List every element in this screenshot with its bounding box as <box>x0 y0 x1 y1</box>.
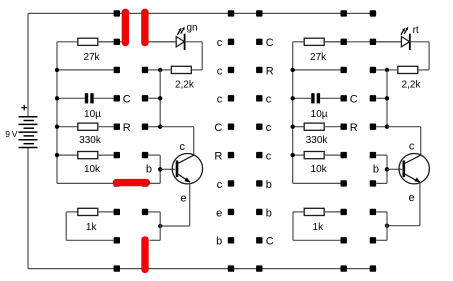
wire bottom ground rail <box>28 268 376 270</box>
label R2 value 330k <box>79 135 102 146</box>
wire right 1k elbow down <box>293 212 341 240</box>
resistor R10 2,2k <box>387 66 418 73</box>
LED D1 green <box>149 23 198 50</box>
junction right emitter node <box>385 224 389 228</box>
wire top supply rail <box>28 12 376 14</box>
wire right collector feed vertical <box>386 70 388 127</box>
svg-text:330k: 330k <box>306 135 329 146</box>
label Q1 c <box>179 141 185 153</box>
wire right bus vertical <box>292 42 294 184</box>
junction bus row4 <box>55 96 59 100</box>
svg-text:27k: 27k <box>83 52 100 63</box>
svg-text:C: C <box>266 37 274 49</box>
svg-text:10k: 10k <box>84 164 101 175</box>
wire base connector column <box>148 155 160 183</box>
junction base node <box>158 167 162 171</box>
wire right emitter down <box>387 182 420 225</box>
wire column A2 row3 link <box>148 69 160 71</box>
wire row3 bus to column A <box>57 69 114 71</box>
node column C breadboard pads <box>256 10 262 272</box>
svg-text:C: C <box>214 122 222 134</box>
wire base lead <box>160 168 175 170</box>
svg-text:2,2k: 2,2k <box>175 79 195 90</box>
wire 1k elbow down <box>66 212 113 240</box>
wire row3 bus to column D <box>293 69 341 71</box>
svg-text:gn: gn <box>187 23 198 34</box>
label R10 value 2,2k <box>402 79 422 90</box>
label R8 value 10k <box>311 164 328 175</box>
svg-text:C: C <box>350 94 358 106</box>
svg-text:b: b <box>266 179 272 191</box>
transistor Q1 <box>172 154 202 184</box>
svg-text:C: C <box>266 236 274 248</box>
node column A breadboard pads <box>114 10 120 272</box>
svg-text:c: c <box>266 94 272 106</box>
svg-text:9 V: 9 V <box>5 129 17 139</box>
junction bus row3 <box>55 68 59 72</box>
wire right emitter connector column <box>376 212 387 240</box>
node column E breadboard pads <box>370 10 376 272</box>
svg-text:330k: 330k <box>79 135 102 146</box>
svg-text:e: e <box>408 192 414 204</box>
wire LED2 to 2.2k elbow <box>410 42 429 70</box>
node label left R <box>123 122 131 134</box>
svg-text:R: R <box>350 122 358 134</box>
node column B breadboard pads <box>228 10 234 272</box>
junction right node row5 <box>385 125 389 129</box>
svg-text:c: c <box>217 94 223 106</box>
wire collector elbow <box>160 127 194 155</box>
junction right bus row4 <box>291 96 295 100</box>
svg-text:2,2k: 2,2k <box>402 79 422 90</box>
jumper J4 red vertical <box>141 236 148 273</box>
svg-text:c: c <box>266 151 272 163</box>
junction right base node <box>385 167 389 171</box>
label R9 value 1k <box>313 222 325 233</box>
svg-text:b: b <box>373 164 379 176</box>
label R4 value 1k <box>86 222 98 233</box>
junction right bus row3 <box>291 68 295 72</box>
junction bus row5 <box>55 125 59 129</box>
label Q2 c <box>409 140 415 152</box>
label R3 value 10k <box>84 164 101 175</box>
wire LED to 2.2k elbow <box>185 42 203 70</box>
wire right row7 bus elbow <box>293 182 341 184</box>
node labels column C <box>266 37 274 248</box>
resistor R3 10k <box>57 152 114 159</box>
resistor R7 330k <box>293 123 341 130</box>
svg-text:10k: 10k <box>311 164 328 175</box>
label R1 value 27k <box>83 52 100 63</box>
resistor R2 330k <box>57 123 114 130</box>
svg-text:R: R <box>214 151 222 163</box>
resistor R9 1k <box>293 208 341 215</box>
label C1 value 10µ <box>84 109 101 120</box>
junction right node row4 <box>385 96 389 100</box>
label Q2 e <box>408 192 414 204</box>
resistor R6 27k <box>293 38 341 45</box>
wire right base connector column <box>376 155 387 183</box>
wire row2 left to squares <box>98 41 176 43</box>
wire left bus vertical <box>56 42 58 184</box>
jumper J3 red horizontal <box>113 179 151 186</box>
svg-text:e: e <box>216 207 222 219</box>
label Q1 e <box>180 192 186 204</box>
svg-text:10µ: 10µ <box>311 109 328 120</box>
transistor Q2 <box>399 154 429 184</box>
svg-text:C: C <box>123 94 131 106</box>
junction bus row6 <box>55 153 59 157</box>
node column D breadboard pads <box>341 10 347 272</box>
svg-text:c: c <box>217 37 223 49</box>
node label left C <box>123 94 131 106</box>
junction right node row3 <box>385 68 389 72</box>
capacitor C2 10µ <box>293 93 341 103</box>
svg-text:c: c <box>179 141 185 153</box>
svg-text:+: + <box>21 103 27 115</box>
resistor R5 2,2k <box>160 66 191 73</box>
label R5 value 2,2k <box>175 79 195 90</box>
wire row2 right to LED <box>324 41 402 43</box>
LED D2 red <box>376 25 419 50</box>
node column A2 breadboard pads <box>142 10 148 272</box>
junction emitter node <box>158 224 162 228</box>
capacitor C1 10µ <box>57 93 114 103</box>
resistor R1 27k <box>57 38 114 45</box>
resistor R4 1k <box>66 208 113 215</box>
svg-text:R: R <box>123 122 131 134</box>
svg-text:1k: 1k <box>313 222 325 233</box>
svg-text:R: R <box>266 65 274 77</box>
label R7 value 330k <box>306 135 329 146</box>
svg-text:10µ: 10µ <box>84 109 101 120</box>
svg-text:1k: 1k <box>86 222 98 233</box>
svg-text:c: c <box>217 65 223 77</box>
svg-text:b: b <box>146 164 152 176</box>
wire right collector elbow <box>387 127 421 155</box>
node labels column B <box>214 37 222 248</box>
label Q2 b <box>373 164 379 176</box>
jumper J1 red vertical <box>122 9 129 47</box>
node label right C <box>350 94 358 106</box>
resistor R8 10k <box>293 152 341 159</box>
wire right base lead <box>387 168 402 170</box>
svg-text:c: c <box>217 179 223 191</box>
junction right bus row6 <box>291 153 295 157</box>
label C2 value 10µ <box>311 109 328 120</box>
wire column E row5 link <box>376 126 387 128</box>
junction node row5 <box>158 125 162 129</box>
battery B1 9V <box>5 13 37 268</box>
svg-text:b: b <box>266 207 272 219</box>
svg-text:b: b <box>216 236 222 248</box>
junction right bus row5 <box>291 125 295 129</box>
wire emitter connector column <box>148 212 160 240</box>
jumper J2 red vertical <box>141 9 148 47</box>
svg-text:c: c <box>409 140 415 152</box>
svg-text:c: c <box>266 122 272 134</box>
wire column E row3 link <box>376 69 387 71</box>
wire column E row4 link <box>376 97 387 99</box>
junction node row3 <box>158 68 162 72</box>
svg-text:rt: rt <box>413 25 419 36</box>
wire emitter down <box>160 183 190 226</box>
label R6 value 27k <box>310 52 327 63</box>
wire row7 bus elbow to base column <box>57 182 160 184</box>
node label right R <box>350 122 358 134</box>
wire column A2 row4 link <box>148 97 160 99</box>
label Q1 b <box>146 164 152 176</box>
svg-text:e: e <box>180 192 186 204</box>
wire column A2 row5 link <box>148 126 160 128</box>
svg-text:27k: 27k <box>310 52 327 63</box>
wire collector feed vertical <box>159 70 161 127</box>
junction node row4 <box>158 96 162 100</box>
